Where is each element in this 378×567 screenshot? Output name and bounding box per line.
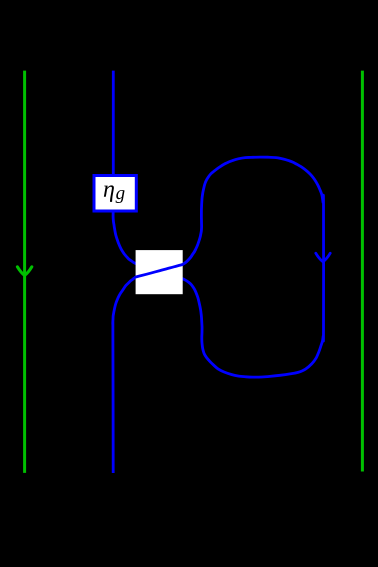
wire: left green strand	[23, 71, 26, 473]
label eta_g	[104, 185, 114, 201]
wire: blue strand from top into eta box	[112, 71, 115, 185]
crossing mask (white square)	[136, 250, 183, 294]
wire: under strand (eta_g output through crossing into loop: bottom arc, right side, top arc, left side)	[113, 157, 323, 377]
arrow on loop right side (down)	[316, 253, 330, 262]
wire: right green strand	[361, 71, 364, 472]
wire: over strand (from bottom, over the crossing, joining loop left side)	[113, 249, 196, 473]
box U: eta_g morphism box	[94, 176, 136, 212]
arrow on left green strand (down)	[17, 267, 31, 276]
